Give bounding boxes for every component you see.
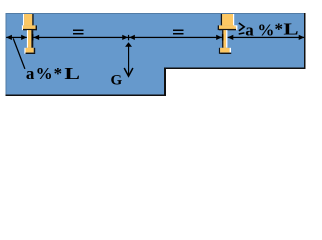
svg-text:a: a bbox=[245, 20, 254, 39]
svg-text:L: L bbox=[64, 64, 80, 83]
svg-text:%: % bbox=[257, 20, 274, 39]
svg-text:a: a bbox=[26, 64, 35, 83]
svg-text:*: * bbox=[54, 64, 63, 83]
svg-text:L: L bbox=[283, 19, 298, 38]
svg-text:G: G bbox=[111, 72, 123, 88]
svg-text:%: % bbox=[36, 64, 53, 83]
svg-text:*: * bbox=[275, 20, 284, 39]
